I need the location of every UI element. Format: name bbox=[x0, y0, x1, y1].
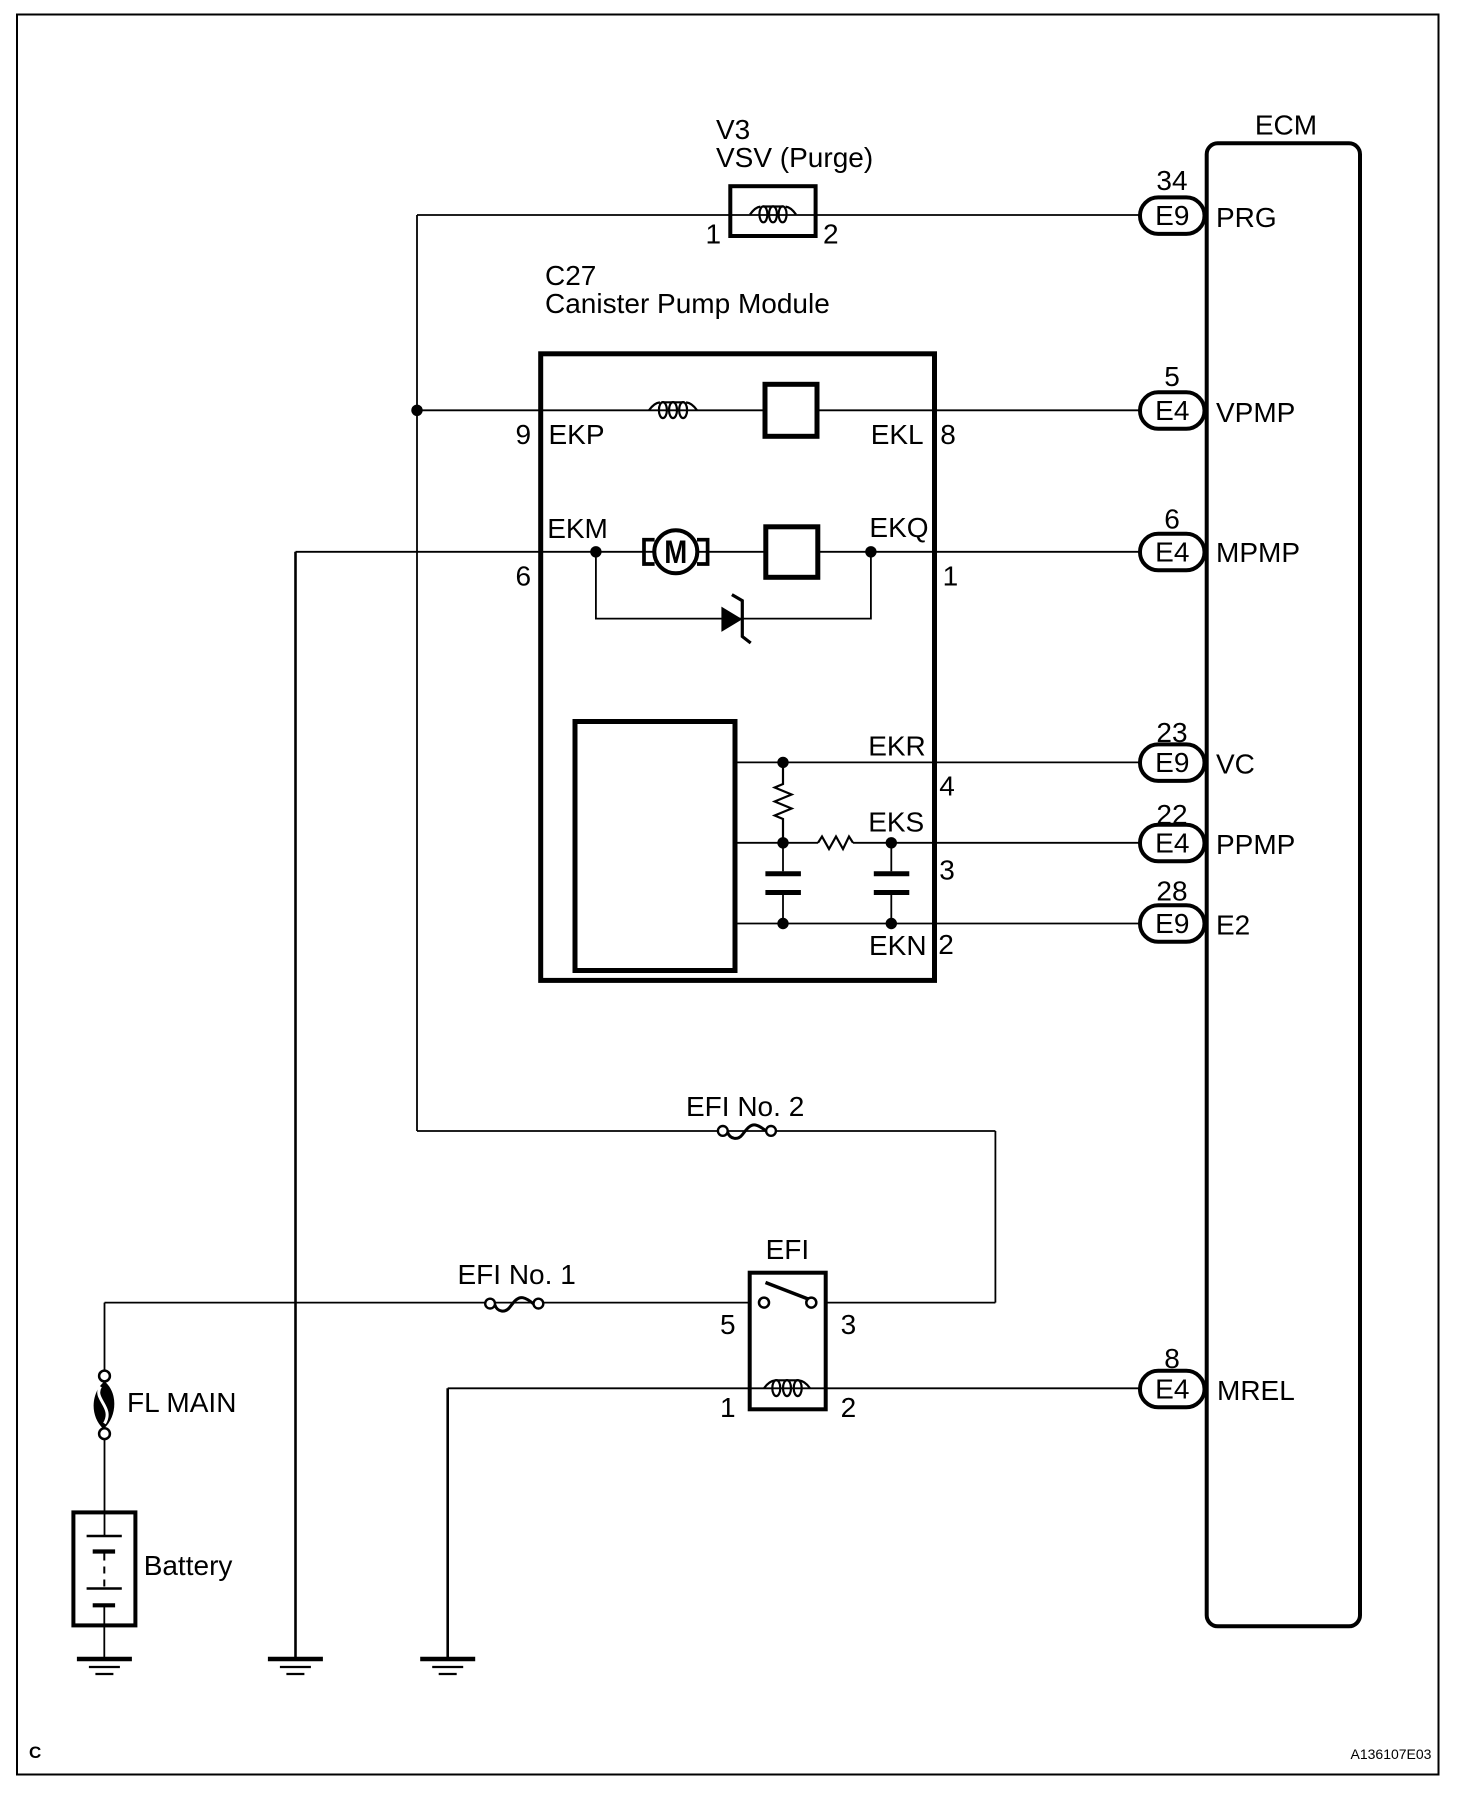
label EFI relay bbox=[766, 1234, 810, 1265]
wire EKP row (pin 9 to ECM E4-5 VPMP) bbox=[417, 409, 1141, 411]
svg-text:28: 28 bbox=[1156, 876, 1187, 907]
label Canister Pump Module bbox=[545, 288, 830, 319]
svg-text:3: 3 bbox=[939, 855, 955, 886]
wire FL MAIN to battery bbox=[104, 1439, 106, 1536]
label EKR bbox=[868, 731, 926, 762]
svg-text:C: C bbox=[29, 1743, 41, 1762]
pin 1 of VSV bbox=[706, 219, 722, 250]
svg-text:PRG: PRG bbox=[1216, 202, 1277, 233]
svg-text:6: 6 bbox=[1164, 504, 1180, 535]
node junction EKN right bbox=[886, 918, 897, 929]
label MREL bbox=[1217, 1375, 1295, 1406]
wire ground vertical from EKM row bbox=[294, 552, 297, 1657]
svg-text:EKL: EKL bbox=[871, 419, 924, 450]
wire PRG net: VSV pin1 through valve to ECM E9-34 bbox=[417, 214, 1141, 216]
label C27 bbox=[545, 260, 596, 291]
label ECM bbox=[1255, 110, 1317, 141]
pin 2 label (EKN) bbox=[938, 929, 954, 960]
label VSV (Purge) bbox=[716, 142, 873, 173]
node junction EKN left bbox=[777, 918, 788, 929]
relay switch contacts and blade bbox=[759, 1283, 816, 1308]
wire ground3 vertical from relay pin 1 bbox=[446, 1388, 449, 1657]
connector E4 pin 8 (MREL) bbox=[1140, 1343, 1205, 1407]
fuse EFI No. 1 bbox=[485, 1298, 543, 1312]
relay coil bbox=[764, 1380, 810, 1396]
relay pin 1 label bbox=[720, 1392, 736, 1423]
wire EKM row (ground net to motor to ECM E4-6 MPMP) bbox=[296, 551, 1142, 553]
svg-text:EKM: EKM bbox=[547, 513, 608, 544]
wire EKS row right (to ECM E4-22 PPMP) bbox=[853, 842, 1141, 844]
svg-text:VC: VC bbox=[1216, 749, 1255, 780]
svg-text:VSV (Purge): VSV (Purge) bbox=[716, 142, 873, 173]
svg-text:M: M bbox=[664, 534, 687, 570]
capacitor C-b bbox=[874, 843, 910, 924]
drawing number A136107E03 bbox=[1351, 1746, 1432, 1762]
wire relay coil row (ground corner to ECM E4-8 MREL) bbox=[448, 1387, 1140, 1389]
driver box on EKP row bbox=[765, 384, 817, 436]
motor M1 bbox=[654, 530, 697, 573]
svg-text:E9: E9 bbox=[1155, 747, 1189, 778]
ground (EFI relay) bbox=[420, 1659, 475, 1674]
connector E9 pin 23 (VC) bbox=[1140, 717, 1205, 781]
resistor horizontal (EKS series) bbox=[818, 837, 853, 850]
label Battery bbox=[144, 1550, 233, 1581]
inductor coil on EKP row bbox=[649, 402, 697, 418]
svg-text:5: 5 bbox=[1164, 361, 1180, 392]
svg-text:5: 5 bbox=[720, 1309, 736, 1340]
relay pin 2 label bbox=[841, 1392, 857, 1423]
svg-text:EFI No. 2: EFI No. 2 bbox=[686, 1091, 804, 1122]
connector E4 pin 5 (VPMP) bbox=[1140, 361, 1205, 429]
pin 2 of VSV bbox=[823, 219, 839, 250]
svg-text:EKS: EKS bbox=[868, 807, 924, 838]
label MPMP bbox=[1216, 537, 1300, 568]
motor brush left bbox=[644, 540, 655, 564]
svg-text:E9: E9 bbox=[1155, 908, 1189, 939]
wire EFI No.2 row bbox=[417, 1130, 995, 1132]
svg-text:MPMP: MPMP bbox=[1216, 537, 1300, 568]
svg-text:EKR: EKR bbox=[868, 731, 926, 762]
C27 Canister Pump Module box bbox=[541, 354, 935, 981]
wire EKN row (sensor ground to ECM E9-28 E2) bbox=[735, 923, 1141, 925]
svg-text:4: 4 bbox=[939, 771, 955, 802]
svg-text:EKQ: EKQ bbox=[869, 512, 928, 543]
node junction EKR bbox=[777, 757, 788, 768]
label EKM bbox=[547, 513, 608, 544]
svg-text:E9: E9 bbox=[1155, 200, 1189, 231]
label EFI No. 2 bbox=[686, 1091, 804, 1122]
svg-text:C27: C27 bbox=[545, 260, 596, 291]
pin 4 label bbox=[939, 771, 955, 802]
pin 8 label bbox=[940, 419, 956, 450]
label FL MAIN bbox=[127, 1387, 236, 1418]
svg-text:1: 1 bbox=[720, 1392, 736, 1423]
node junction at EKP wire bbox=[411, 405, 422, 416]
svg-text:Canister Pump Module: Canister Pump Module bbox=[545, 288, 830, 319]
svg-text:ECM: ECM bbox=[1255, 110, 1317, 141]
wire EKS row left (sensor to resistor) bbox=[735, 842, 818, 844]
pin 3 label bbox=[939, 855, 955, 886]
pin 9 label bbox=[516, 419, 532, 450]
capacitor C-a bbox=[765, 843, 801, 924]
svg-text:EFI: EFI bbox=[766, 1234, 810, 1265]
svg-text:FL MAIN: FL MAIN bbox=[127, 1387, 236, 1418]
wire EKR row (sensor to ECM E9-23 VC) bbox=[735, 761, 1141, 763]
node junction EKQ right bbox=[865, 546, 876, 557]
label EKP bbox=[549, 419, 605, 450]
motor brush right bbox=[697, 540, 708, 564]
V3 VSV (Purge) solenoid valve bbox=[730, 186, 815, 236]
pressure sensor box bbox=[575, 722, 735, 971]
connector E9 pin 28 (E2) bbox=[1140, 876, 1205, 942]
node junction EKM left bbox=[590, 546, 601, 557]
label VC bbox=[1216, 749, 1255, 780]
svg-text:1: 1 bbox=[943, 561, 959, 592]
ground (canister pump module) bbox=[268, 1659, 323, 1674]
relay EFI box bbox=[750, 1273, 826, 1410]
svg-text:8: 8 bbox=[940, 419, 956, 450]
battery bbox=[73, 1512, 135, 1657]
svg-text:34: 34 bbox=[1156, 165, 1187, 196]
svg-text:9: 9 bbox=[516, 419, 532, 450]
svg-text:E2: E2 bbox=[1216, 910, 1250, 941]
label V3 bbox=[716, 114, 750, 145]
node junction EKS left bbox=[777, 837, 788, 848]
svg-text:MREL: MREL bbox=[1217, 1375, 1295, 1406]
resistor vertical (pull-up) bbox=[775, 762, 792, 842]
ECM box bbox=[1207, 143, 1360, 1626]
pin 6 label bbox=[516, 561, 532, 592]
svg-text:VPMP: VPMP bbox=[1216, 397, 1295, 428]
label PRG bbox=[1216, 202, 1277, 233]
svg-text:2: 2 bbox=[841, 1392, 857, 1423]
label EFI No. 1 bbox=[458, 1259, 576, 1290]
connector E4 pin 6 (MPMP) bbox=[1140, 504, 1205, 571]
wire FL MAIN vertical top bbox=[104, 1303, 106, 1371]
svg-text:V3: V3 bbox=[716, 114, 750, 145]
svg-text:6: 6 bbox=[516, 561, 532, 592]
driver box on EKM row bbox=[766, 527, 818, 578]
connector E9 pin 34 (PRG) bbox=[1140, 165, 1205, 234]
svg-text:PPMP: PPMP bbox=[1216, 829, 1295, 860]
label E2 bbox=[1216, 910, 1250, 941]
wire relay pin 3 to EFI No.2 vertical bbox=[826, 1302, 995, 1304]
svg-text:Battery: Battery bbox=[144, 1550, 233, 1581]
wire zener loop around motor bbox=[596, 552, 871, 619]
svg-text:2: 2 bbox=[823, 219, 839, 250]
svg-text:A136107E03: A136107E03 bbox=[1351, 1746, 1432, 1762]
svg-text:E4: E4 bbox=[1155, 395, 1189, 426]
svg-text:EKP: EKP bbox=[549, 419, 605, 450]
svg-text:2: 2 bbox=[938, 929, 954, 960]
pin 1 label (EKQ) bbox=[943, 561, 959, 592]
label EKL bbox=[871, 419, 924, 450]
svg-text:E4: E4 bbox=[1155, 1374, 1189, 1405]
label EKQ bbox=[869, 512, 928, 543]
svg-text:3: 3 bbox=[841, 1309, 857, 1340]
label EKS bbox=[868, 807, 924, 838]
svg-text:EFI No. 1: EFI No. 1 bbox=[458, 1259, 576, 1290]
page letter C bbox=[29, 1743, 41, 1762]
svg-text:E4: E4 bbox=[1155, 828, 1189, 859]
zener diode across motor bbox=[721, 595, 750, 643]
svg-text:1: 1 bbox=[706, 219, 722, 250]
node junction EKS right bbox=[886, 837, 897, 848]
fusible link FL MAIN bbox=[94, 1371, 115, 1440]
wire EFI No.2 vertical to relay pin 3 bbox=[994, 1131, 996, 1303]
fuse EFI No. 2 bbox=[718, 1125, 776, 1139]
label VPMP bbox=[1216, 397, 1295, 428]
relay pin 5 label bbox=[720, 1309, 736, 1340]
wire switch row (FL MAIN corner to relay pin 5) bbox=[105, 1302, 751, 1304]
label EKN bbox=[869, 930, 927, 961]
ground (battery) bbox=[77, 1659, 132, 1674]
svg-text:E4: E4 bbox=[1155, 537, 1189, 568]
svg-text:EKN: EKN bbox=[869, 930, 927, 961]
relay pin 3 label bbox=[841, 1309, 857, 1340]
label PPMP bbox=[1216, 829, 1295, 860]
wire main left vertical (B+ net from VSV/EKP down to EFI No.2) bbox=[416, 215, 418, 1131]
connector E4 pin 22 (PPMP) bbox=[1140, 799, 1205, 861]
